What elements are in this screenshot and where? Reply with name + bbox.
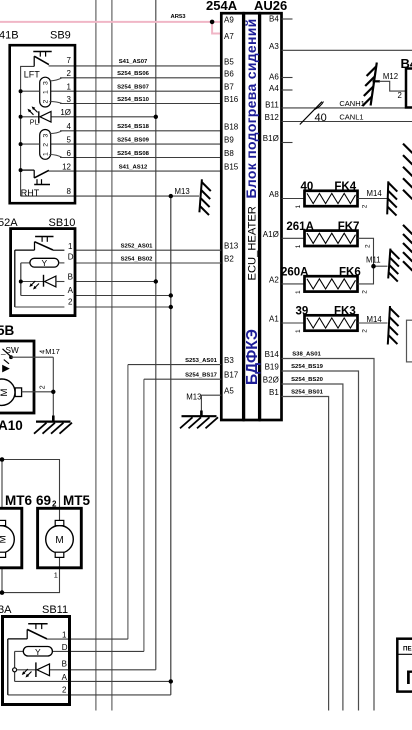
wire CANH1 (282, 107, 412, 109)
switch LFT (pin 7) (33, 52, 51, 67)
svg-text:B: B (68, 273, 73, 282)
svg-text:A5: A5 (224, 387, 234, 396)
svg-text:B7: B7 (224, 83, 234, 92)
svg-text:B1Ø: B1Ø (263, 134, 279, 143)
SB9 pin 1 wire to B7 (51, 90, 222, 92)
switch (pin 1) (8, 624, 48, 695)
svg-text:A7: A7 (224, 32, 234, 41)
svg-text:AU26: AU26 (254, 0, 287, 13)
svg-text:2: 2 (361, 290, 368, 294)
wire SB11 pin B (50, 669, 156, 671)
SB9 pin 12 wire to B15 (49, 170, 222, 172)
box A10 (0, 341, 34, 413)
wire vertical net to SB11 pin B (from SB9 pin 10) (155, 0, 157, 670)
LED (pin B) (21, 275, 65, 290)
svg-text:41B: 41B (0, 30, 19, 42)
SB9 pin 8 wire to ground M13 (21, 195, 199, 197)
stub B4 (282, 18, 293, 20)
svg-text:1: 1 (67, 83, 72, 92)
connector B4 box (406, 69, 412, 108)
svg-text:PL: PL (30, 118, 39, 127)
svg-text:M12: M12 (383, 72, 398, 81)
SB9 pin 6 wire to B8 (60, 157, 221, 159)
connector column right (260, 13, 282, 420)
fuse FK3 (295, 306, 368, 334)
wire vertical net B17 to SB11 pin D (143, 379, 145, 651)
wire FK4 to M14 (358, 198, 388, 200)
svg-text:_SW: _SW (0, 346, 19, 355)
svg-text:3: 3 (43, 81, 50, 85)
connector box right edge (407, 320, 412, 362)
svg-text:ECU_HEATER: ECU_HEATER (247, 206, 259, 280)
svg-text:B2: B2 (224, 255, 234, 264)
wire FK6 pin2 to M11 (358, 266, 374, 284)
wire B3 to SB11 pin 1 start (128, 364, 221, 366)
svg-text:2: 2 (39, 385, 46, 389)
svg-text:2: 2 (43, 143, 50, 147)
svg-text:B5: B5 (224, 57, 234, 66)
svg-text:1: 1 (43, 152, 50, 156)
svg-text:M14: M14 (367, 315, 383, 324)
svg-text:B9: B9 (224, 136, 234, 145)
svg-text:B8: B8 (224, 149, 234, 158)
svg-text:B1: B1 (269, 388, 279, 397)
component column ECU (244, 13, 259, 420)
svg-text:3: 3 (43, 134, 50, 138)
wire SB10 pin B to junction (75, 281, 156, 283)
svg-text:1: 1 (62, 631, 67, 640)
svg-text:БДФКЭ: БДФКЭ (244, 329, 261, 385)
svg-text:1: 1 (68, 242, 73, 251)
svg-text:M13: M13 (175, 187, 190, 196)
ground M13 (A5) (180, 411, 218, 429)
svg-text:4: 4 (67, 122, 72, 131)
SB9 pin 4 wire to B18 (60, 130, 221, 132)
svg-text:A3: A3 (269, 42, 279, 51)
stub A4 (282, 89, 293, 91)
wire SB11 pin A (15, 680, 171, 682)
svg-text:5B: 5B (0, 323, 15, 338)
wire pin 2 internal (15, 306, 65, 308)
right edge ground hatches (lower) (403, 225, 412, 271)
svg-text:SB9: SB9 (50, 30, 71, 42)
svg-text:MT5: MT5 (63, 493, 90, 508)
switch block SB10 (0, 217, 75, 316)
svg-text:RHT: RHT (21, 188, 40, 198)
svg-text:CANH1: CANH1 (339, 99, 364, 108)
central block 254A AU26 (206, 0, 287, 420)
wire rotary2 to pin 4 (50, 131, 63, 134)
svg-text:S254_BS06: S254_BS06 (117, 71, 149, 77)
svg-text:Y: Y (35, 647, 41, 657)
svg-text:S38_AS01: S38_AS01 (292, 352, 321, 358)
wire vertical ground net x=171 (170, 196, 172, 695)
rotary contact oval 2 (pins 4/5/6) (40, 130, 51, 160)
svg-text:SB11: SB11 (42, 604, 68, 616)
svg-text:1: 1 (295, 290, 302, 294)
svg-text:A1: A1 (269, 315, 279, 324)
motor MT5 (38, 508, 82, 568)
wire CANL1 (282, 121, 412, 123)
wire rotary1 common (21, 90, 40, 92)
svg-text:S254_BS01: S254_BS01 (291, 390, 323, 396)
wire FK7 pin2 to M11 (358, 238, 374, 266)
svg-text:B11: B11 (265, 100, 279, 109)
svg-text:A10: A10 (0, 418, 23, 433)
fuse FK7 (286, 221, 371, 249)
svg-text:A4: A4 (269, 84, 279, 93)
svg-text:1Ø: 1Ø (60, 108, 71, 117)
svg-text:M17: M17 (45, 347, 60, 356)
wire SB11 pin D (52, 650, 143, 652)
svg-text:12: 12 (62, 162, 71, 171)
svg-text:5: 5 (67, 135, 72, 144)
wire pin 2 (22, 391, 54, 393)
svg-text:40: 40 (315, 112, 327, 124)
wire MT feed (2, 460, 60, 521)
lamp Y (pin D) (15, 647, 53, 682)
wire pink power AR53 to A9/A7 (0, 22, 221, 34)
svg-text:B15: B15 (224, 163, 239, 172)
svg-text:3A: 3A (0, 604, 12, 616)
svg-text:CANL1: CANL1 (339, 113, 363, 122)
wire vertical net B3 to SB11 pin 1 (127, 365, 129, 639)
svg-text:2: 2 (62, 686, 67, 695)
SB9 pin 2 wire to B6 (60, 77, 221, 79)
svg-text:B13: B13 (224, 242, 239, 251)
svg-text:69: 69 (36, 493, 51, 508)
svg-text:1: 1 (295, 244, 302, 248)
box SB11 (3, 617, 70, 705)
wire A2 to FK6 (282, 283, 305, 285)
ground M11 (388, 249, 399, 282)
svg-text:2: 2 (398, 91, 402, 100)
wire pin 4 to M17 (11, 356, 53, 358)
wire vertical bus x=96 (95, 0, 97, 711)
wire B2 from SB10 pin D (75, 262, 221, 264)
box SB10 (11, 229, 75, 316)
svg-text:AR53: AR53 (171, 14, 187, 20)
svg-text:S254_BS19: S254_BS19 (291, 364, 323, 370)
motor M (0, 379, 15, 405)
ground M13 (SB9 pin 8) (199, 179, 210, 215)
fuse FK4 (295, 181, 368, 209)
lamp Y (pin D) (21, 258, 65, 295)
svg-text:B: B (62, 660, 67, 669)
wire rotary1 to pin 2 (50, 78, 63, 81)
stub A6 (282, 77, 293, 79)
ground (A10) (34, 416, 72, 434)
wire B14 (282, 359, 375, 711)
wire MT6 bottom (1, 568, 3, 593)
wire M11 to ground (374, 265, 388, 267)
wire A3 (282, 49, 412, 51)
right edge ground hatches (upper) (403, 144, 412, 200)
switch block SB11 (0, 604, 70, 705)
wire MT6 top (1, 460, 3, 509)
svg-text:M: M (55, 535, 63, 546)
wire B17 to SB11 pin D start (144, 378, 221, 380)
svg-text:1: 1 (54, 570, 58, 579)
wire A10 to FK7 (282, 237, 305, 239)
svg-text:1: 1 (43, 90, 50, 94)
svg-text:S254_BS08: S254_BS08 (117, 151, 149, 157)
svg-text:2: 2 (361, 204, 368, 208)
svg-text:2: 2 (361, 329, 368, 333)
svg-text:M: M (0, 389, 10, 397)
svg-text:S254_BS10: S254_BS10 (117, 97, 149, 103)
svg-text:B17: B17 (224, 371, 239, 380)
ground M14 (FK4) (387, 181, 397, 215)
svg-text:7: 7 (67, 56, 72, 65)
svg-text:B18: B18 (224, 122, 239, 131)
SB9 pin 5 wire to B9 (51, 143, 222, 145)
wire A5 to ground M13 (201, 395, 221, 411)
ground M14 (FK3) (388, 306, 399, 345)
SB9 pin 10 wire to junction (51, 116, 156, 118)
svg-text:M14: M14 (367, 189, 383, 198)
svg-text:B12: B12 (265, 113, 280, 122)
wire MT5 bottom to bus (2, 557, 60, 592)
lamp PL (pin 10) (21, 106, 51, 126)
svg-text:M11: M11 (366, 256, 381, 265)
wire A8 to FK4 (282, 198, 305, 200)
wire SB11 pin 2 (8, 694, 171, 696)
wire B13 from SB10 pin 1 (75, 249, 221, 251)
wire SB10 pin A to ground net (75, 295, 171, 297)
wire B19 (282, 371, 359, 711)
svg-text:S41_AS07: S41_AS07 (119, 59, 148, 65)
svg-text:ПЕРЕД: ПЕРЕД (403, 646, 412, 653)
svg-text:S41_AS12: S41_AS12 (119, 164, 148, 170)
svg-text:1: 1 (295, 329, 302, 333)
svg-text:B3: B3 (224, 356, 234, 365)
SB9 pin 7 wire to B5 (49, 65, 222, 67)
svg-text:3: 3 (67, 95, 72, 104)
svg-text:A: A (68, 286, 74, 295)
svg-text:B4: B4 (269, 15, 279, 24)
svg-text:52A: 52A (0, 217, 18, 229)
sensor triangle (2, 365, 10, 373)
wire SB11 pin 1 (47, 638, 128, 640)
svg-text:A8: A8 (269, 190, 279, 199)
svg-text:2: 2 (67, 69, 72, 78)
svg-text:A2: A2 (269, 275, 279, 284)
svg-text:254A: 254A (206, 0, 238, 13)
svg-text:A: A (62, 673, 68, 682)
wire rotary1 to pin 3 (50, 102, 63, 104)
wire FK3 to M14 (358, 322, 388, 324)
harness slash 40 (300, 102, 322, 125)
svg-text:S254_BS20: S254_BS20 (291, 377, 323, 383)
svg-text:A6: A6 (269, 72, 279, 81)
pump block A10 (0, 341, 60, 433)
svg-text:M: M (0, 535, 9, 543)
svg-text:Блок подогрева сидений: Блок подогрева сидений (243, 18, 259, 198)
wire pin A internal (21, 295, 65, 297)
svg-text:S254_BS02: S254_BS02 (121, 256, 153, 262)
switch (pin 1) (15, 237, 65, 308)
switch contact (9, 355, 13, 359)
svg-text:S254_BS07: S254_BS07 (117, 85, 149, 91)
svg-text:П: П (406, 668, 412, 689)
wire M17 drop to ground (52, 357, 54, 416)
svg-text:S253_AS01: S253_AS01 (185, 358, 217, 364)
svg-text:S254_BS18: S254_BS18 (117, 124, 149, 130)
svg-text:2: 2 (43, 100, 50, 104)
junction dots (210, 20, 215, 25)
wire rotary2 common (21, 143, 40, 145)
svg-text:B2Ø: B2Ø (263, 376, 279, 385)
SB9 internal bus (21, 66, 35, 196)
LED (pin B) (13, 662, 50, 677)
svg-text:M13: M13 (186, 393, 201, 402)
SB9 pin 3 wire to B16 (60, 103, 221, 105)
svg-text:S252_AS01: S252_AS01 (121, 244, 153, 250)
svg-text:8: 8 (67, 187, 72, 196)
svg-text:D: D (62, 643, 68, 652)
svg-text:2: 2 (68, 298, 73, 307)
svg-text:SB10: SB10 (49, 217, 76, 229)
wire B20 (282, 384, 343, 711)
wire B1 (282, 397, 329, 711)
wire SB10 pin 2 to ground net (75, 306, 171, 308)
box SB9 (10, 45, 75, 203)
svg-text:B19: B19 (265, 363, 280, 372)
svg-text:2: 2 (365, 244, 372, 248)
ground M12 (362, 63, 376, 107)
svg-text:6: 6 (67, 149, 72, 158)
svg-text:MT6: MT6 (5, 493, 32, 508)
svg-text:B16: B16 (224, 95, 239, 104)
fuse FK6 (281, 266, 368, 294)
svg-text:S254_BS17: S254_BS17 (185, 373, 217, 379)
stub B10 (282, 142, 293, 144)
wire vertical bus x=112 (111, 0, 113, 711)
svg-text:A9: A9 (224, 16, 234, 25)
switch RHT (pin 12 / pin 8) (21, 170, 50, 184)
switch block SB9 (0, 30, 75, 204)
svg-text:B14: B14 (265, 350, 280, 359)
connector box ПЕ (bottom right) (397, 639, 412, 692)
svg-text:Y: Y (41, 258, 47, 268)
svg-text:A1Ø: A1Ø (263, 230, 279, 239)
wire M12 to B4 connector (373, 80, 381, 82)
connector column left (221, 13, 243, 420)
svg-text:S254_BS09: S254_BS09 (117, 137, 149, 143)
wire A1 to FK3 (282, 322, 305, 324)
svg-text:1: 1 (295, 205, 302, 209)
svg-text:B6: B6 (224, 69, 234, 78)
wire rotary2 to pin 6 (50, 155, 63, 158)
rotary contact oval 1 (pins 2/1/3) (40, 77, 51, 107)
motor MT6 (0, 508, 22, 568)
svg-text:D: D (68, 253, 74, 262)
svg-text:LFT: LFT (24, 70, 41, 80)
